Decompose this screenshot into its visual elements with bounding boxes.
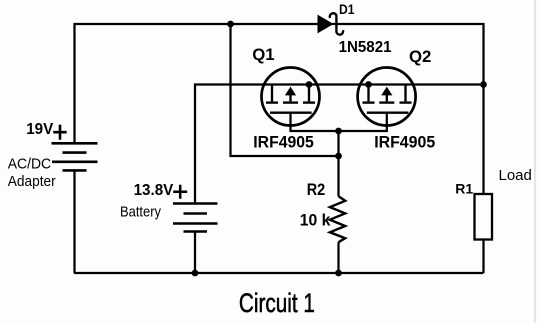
svg-text:Q1: Q1 <box>252 45 274 64</box>
svg-text:R1: R1 <box>455 180 473 196</box>
junction dot Q2 drain on source rail <box>365 81 372 88</box>
svg-text:19V: 19V <box>26 121 53 138</box>
resistor R2 zigzag <box>330 196 345 242</box>
junction dot source rail / right branch <box>480 81 487 88</box>
wire battery negative lead <box>194 232 196 273</box>
svg-text:Load: Load <box>499 167 532 184</box>
resistor R1 box <box>475 194 493 240</box>
svg-text:Battery: Battery <box>120 203 161 220</box>
plus sign adapter polarity <box>53 125 66 140</box>
svg-text:10 k: 10 k <box>300 211 331 230</box>
svg-text:Adapter: Adapter <box>8 173 56 190</box>
right edge border line <box>534 0 536 323</box>
battery symbol plates <box>173 204 218 232</box>
wire gate bus connecting Q1 and Q2 gates <box>291 113 387 131</box>
svg-text:AC/DC: AC/DC <box>8 156 52 173</box>
wire right vertical upper (top rail to R1) <box>482 23 484 194</box>
wire battery positive riser and source rail <box>195 85 484 204</box>
junction dot top rail / sense drop <box>227 21 234 28</box>
wire bottom rail <box>74 272 484 274</box>
svg-text:D1: D1 <box>339 1 355 17</box>
diode D1 anode triangle <box>318 15 334 34</box>
transistor Q2 (IRF4905 p-channel MOSFET) <box>358 68 416 126</box>
junction dot sense drop / R2 node <box>335 153 342 160</box>
svg-text:IRF4905: IRF4905 <box>374 132 435 151</box>
junction dot R2 / bottom rail <box>335 270 342 277</box>
wire R2 top lead <box>337 131 339 196</box>
svg-text:13.8V: 13.8V <box>134 182 174 199</box>
plus sign battery polarity <box>173 185 187 199</box>
junction dot gate bus / R2 <box>335 128 342 135</box>
svg-text:IRF4905: IRF4905 <box>253 132 313 151</box>
wire adapter sense drop to gate pull-up node <box>231 24 339 156</box>
transistor Q1 (IRF4905 p-channel MOSFET) <box>262 68 320 126</box>
wire top rail <box>74 23 484 25</box>
diode D1 schottky cathode bar <box>330 13 343 34</box>
wire R2 bottom lead <box>337 242 339 273</box>
svg-text:1N5821: 1N5821 <box>339 39 392 56</box>
svg-text:Q2: Q2 <box>409 47 431 66</box>
AC/DC adapter symbol (battery plates) <box>52 143 98 170</box>
wire left vertical lower (adapter negative lead) <box>73 170 75 273</box>
svg-text:R2: R2 <box>307 180 326 199</box>
svg-text:Circuit 1: Circuit 1 <box>239 288 315 318</box>
wire left vertical upper (adapter positive lead) <box>73 23 75 143</box>
junction dot battery / bottom rail <box>192 270 199 277</box>
junction dot Q1 drain on source rail <box>306 81 313 88</box>
wire right vertical lower (R1 to bottom rail) <box>482 240 484 274</box>
